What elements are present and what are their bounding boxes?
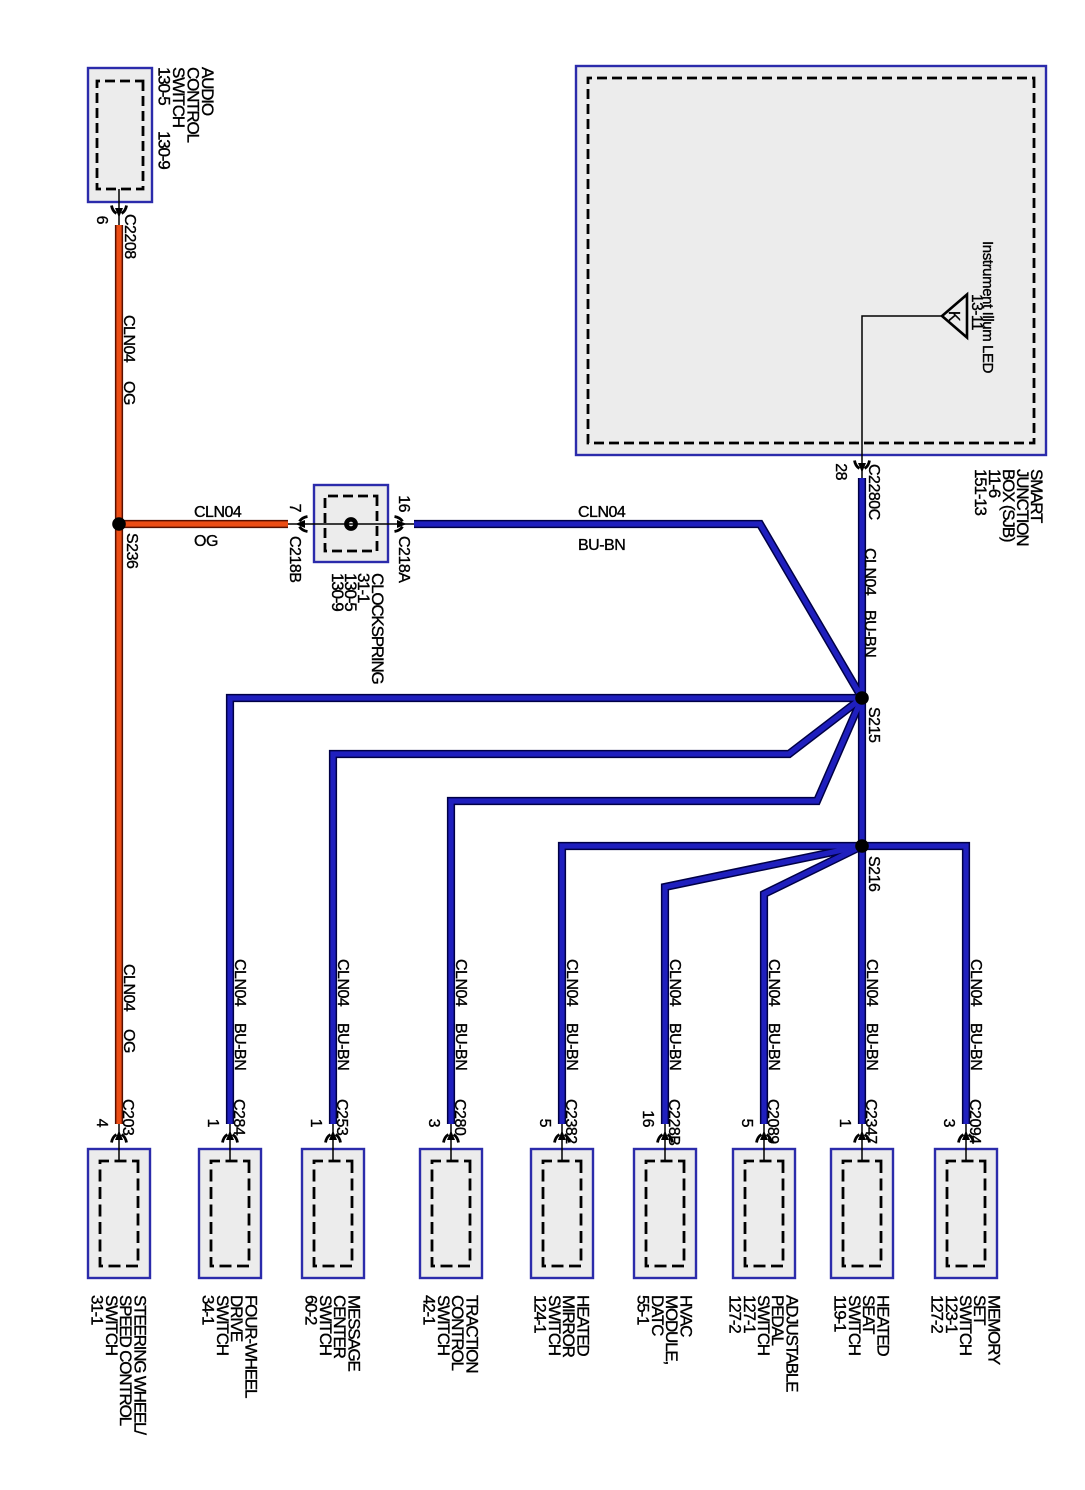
svg-text:34-1: 34-1 [199,1295,218,1325]
svg-text:6: 6 [93,216,110,225]
svg-text:BU-BN: BU-BN [967,1023,984,1070]
svg-text:CLN04: CLN04 [578,504,626,521]
svg-text:55-1: 55-1 [634,1295,653,1325]
svg-text:CLN04: CLN04 [452,959,469,1007]
svg-text:130-9: 130-9 [328,573,347,611]
svg-text:C2094: C2094 [966,1099,983,1144]
svg-text:130-5: 130-5 [155,67,174,105]
svg-text:C2347: C2347 [862,1099,879,1144]
svg-text:C284: C284 [230,1099,247,1136]
svg-text:C280: C280 [451,1099,468,1136]
svg-text:C2280C: C2280C [865,464,882,520]
svg-text:127-2: 127-2 [928,1295,947,1333]
svg-text:28: 28 [832,463,849,480]
svg-text:C218A: C218A [395,536,412,583]
svg-text:CLN04: CLN04 [967,959,984,1007]
svg-text:5: 5 [536,1119,553,1128]
svg-text:3: 3 [425,1119,442,1128]
svg-text:BU-BN: BU-BN [231,1023,248,1070]
svg-text:C228B: C228B [665,1099,682,1145]
svg-text:OG: OG [194,533,218,550]
svg-text:BU-BN: BU-BN [452,1023,469,1070]
svg-text:CLN04: CLN04 [563,959,580,1007]
svg-text:C2382: C2382 [562,1099,579,1144]
svg-text:BU-BN: BU-BN [334,1023,351,1070]
svg-text:CLN04: CLN04 [863,959,880,1007]
svg-text:CLN04: CLN04 [765,959,782,1007]
svg-text:124-1: 124-1 [531,1295,550,1333]
svg-text:S216: S216 [865,856,882,892]
svg-text:BU-BN: BU-BN [861,610,878,657]
svg-text:13-11: 13-11 [968,294,985,330]
svg-text:127-2: 127-2 [726,1295,745,1333]
svg-text:151-13: 151-13 [971,469,990,515]
svg-text:130-9: 130-9 [155,131,174,169]
svg-text:C203: C203 [119,1099,136,1136]
svg-text:CLN04: CLN04 [120,964,137,1012]
svg-text:OG: OG [120,1029,137,1053]
svg-text:1: 1 [307,1119,324,1128]
svg-text:BU-BN: BU-BN [563,1023,580,1070]
svg-text:16: 16 [639,1110,656,1127]
svg-text:CLN04: CLN04 [120,315,137,363]
svg-text:BU-BN: BU-BN [765,1023,782,1070]
svg-text:BU-BN: BU-BN [578,537,625,554]
svg-text:31-1: 31-1 [88,1295,107,1325]
svg-text:K: K [945,311,962,322]
svg-text:7: 7 [286,504,303,513]
svg-text:16: 16 [395,495,412,512]
svg-text:4: 4 [93,1119,110,1128]
svg-text:C253: C253 [333,1099,350,1136]
svg-text:CLN04: CLN04 [334,959,351,1007]
svg-text:119-1: 119-1 [831,1295,850,1332]
svg-text:CLN04: CLN04 [666,959,683,1007]
svg-text:5: 5 [738,1119,755,1128]
svg-text:S236: S236 [123,533,140,569]
svg-text:CLN04: CLN04 [861,548,878,596]
svg-text:42-1: 42-1 [420,1295,439,1325]
svg-text:C2208: C2208 [121,214,138,259]
svg-text:CLN04: CLN04 [231,959,248,1007]
svg-text:3: 3 [940,1119,957,1128]
svg-text:S215: S215 [865,707,882,743]
svg-text:C2089: C2089 [764,1099,781,1144]
svg-text:BU-BN: BU-BN [666,1023,683,1070]
svg-text:1: 1 [836,1119,853,1128]
svg-text:BU-BN: BU-BN [863,1023,880,1070]
svg-text:CLN04: CLN04 [194,504,242,521]
svg-text:C218B: C218B [286,536,303,582]
svg-text:60-2: 60-2 [302,1295,321,1325]
svg-text:1: 1 [204,1119,221,1128]
svg-text:OG: OG [120,381,137,405]
